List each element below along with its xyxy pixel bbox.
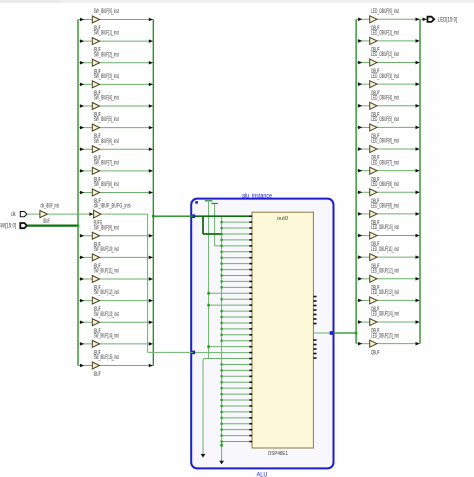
svg-text:SW_IBUF[7]_inst: SW_IBUF[7]_inst <box>94 160 119 166</box>
svg-text:LED_OBUF[1]_inst: LED_OBUF[1]_inst <box>371 31 399 37</box>
svg-text:LED_OBUF[2]_inst: LED_OBUF[2]_inst <box>371 52 399 58</box>
svg-text:SW_IBUF[3]_inst: SW_IBUF[3]_inst <box>94 74 119 80</box>
svg-text:SW_IBUF[13]_inst: SW_IBUF[13]_inst <box>94 312 119 318</box>
svg-text:SW_IBUF[2]_inst: SW_IBUF[2]_inst <box>94 52 119 58</box>
svg-text:LED_OBUF[7]_inst: LED_OBUF[7]_inst <box>371 160 399 166</box>
svg-text:clk: clk <box>11 212 16 218</box>
svg-text:LED_OBUF[13]_inst: LED_OBUF[13]_inst <box>371 290 399 296</box>
svg-text:SW_IBUF[9]_inst: SW_IBUF[9]_inst <box>94 225 119 231</box>
svg-text:IBUF: IBUF <box>43 219 50 225</box>
svg-text:SW_IBUF[10]_inst: SW_IBUF[10]_inst <box>94 247 119 253</box>
svg-text:SW_IBUF[15]_inst: SW_IBUF[15]_inst <box>94 355 119 361</box>
svg-text:LED_OBUF[8]_inst: LED_OBUF[8]_inst <box>371 182 399 188</box>
svg-text:SW[15:0]: SW[15:0] <box>0 224 16 230</box>
svg-text:SW_IBUF[0]_inst: SW_IBUF[0]_inst <box>94 9 119 15</box>
svg-text:LED_OBUF[14]_inst: LED_OBUF[14]_inst <box>371 312 399 318</box>
svg-text:LED_OBUF[11]_inst: LED_OBUF[11]_inst <box>371 247 399 253</box>
svg-text:LED_OBUF[10]_inst: LED_OBUF[10]_inst <box>371 225 399 231</box>
svg-text:SW_IBUF[5]_inst: SW_IBUF[5]_inst <box>94 117 119 123</box>
svg-text:DSP48E1: DSP48E1 <box>268 451 288 457</box>
svg-text:out0: out0 <box>277 216 288 222</box>
svg-text:SW_IBUF[1]_inst: SW_IBUF[1]_inst <box>94 31 119 37</box>
svg-text:LED_OBUF[12]_inst: LED_OBUF[12]_inst <box>371 268 399 274</box>
svg-text:clk_IBUF_inst: clk_IBUF_inst <box>41 204 60 210</box>
svg-text:LED_OBUF[0]_inst: LED_OBUF[0]_inst <box>371 9 399 15</box>
svg-text:alu_instance: alu_instance <box>242 193 273 199</box>
svg-text:SW_IBUF[11]_inst: SW_IBUF[11]_inst <box>94 269 119 275</box>
svg-text:LED[15:0]: LED[15:0] <box>438 17 458 23</box>
svg-text:LED_OBUF[4]_inst: LED_OBUF[4]_inst <box>371 95 399 101</box>
svg-text:ALU: ALU <box>257 472 268 477</box>
svg-text:SW_IBUF[6]_inst: SW_IBUF[6]_inst <box>94 139 119 145</box>
svg-text:clk_IBUF_BUFG_inst: clk_IBUF_BUFG_inst <box>94 204 131 210</box>
svg-text:LED_OBUF[6]_inst: LED_OBUF[6]_inst <box>371 139 399 145</box>
svg-text:OBUF: OBUF <box>371 350 380 356</box>
svg-text:LED_OBUF[15]_inst: LED_OBUF[15]_inst <box>371 333 399 339</box>
svg-text:SW_IBUF[14]_inst: SW_IBUF[14]_inst <box>94 333 119 339</box>
svg-text:LED_OBUF[9]_inst: LED_OBUF[9]_inst <box>371 204 399 210</box>
svg-text:SW_IBUF[8]_inst: SW_IBUF[8]_inst <box>94 182 119 188</box>
svg-text:LED_OBUF[5]_inst: LED_OBUF[5]_inst <box>371 117 399 123</box>
svg-text:SW_IBUF[4]_inst: SW_IBUF[4]_inst <box>94 96 119 102</box>
svg-text:SW_IBUF[12]_inst: SW_IBUF[12]_inst <box>94 290 119 296</box>
svg-text:LED_OBUF[3]_inst: LED_OBUF[3]_inst <box>371 74 399 80</box>
svg-text:IBUF: IBUF <box>94 372 101 378</box>
